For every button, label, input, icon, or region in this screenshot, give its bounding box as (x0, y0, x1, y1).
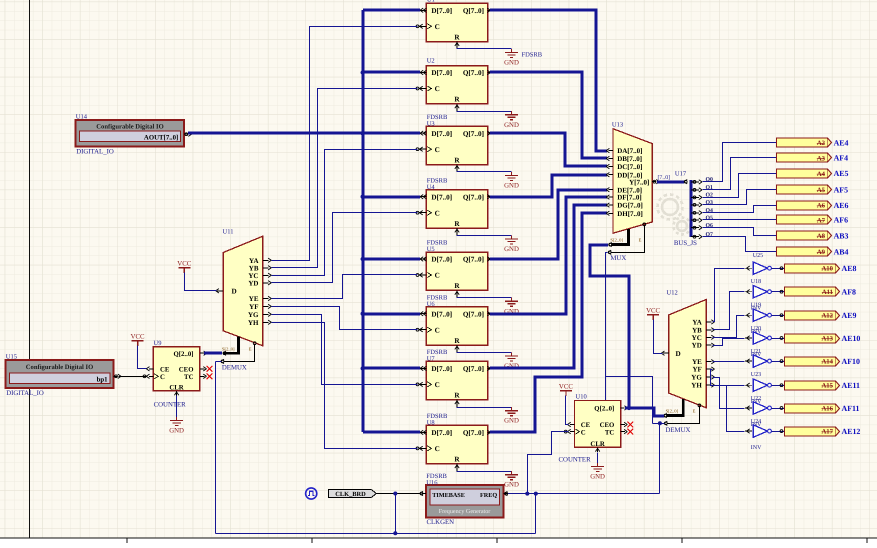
svg-text:S[2..0]: S[2..0] (222, 346, 235, 351)
U9 pin CLR stub (176, 391, 178, 396)
svg-text:CE: CE (581, 422, 591, 429)
U9 pin Q stub (200, 352, 204, 354)
junction D-bus U3 (361, 131, 365, 135)
svg-text:YA: YA (692, 318, 701, 326)
wire U1.R to GND (457, 48, 512, 50)
svg-text:YC: YC (692, 334, 702, 342)
wire rail to U11.E (215, 362, 217, 534)
U8 pin D stub (420, 431, 426, 433)
inverter gate U21 INV (745, 332, 771, 344)
flip-flop U8 (FDSRB) (426, 425, 487, 463)
svg-text:AE9: AE9 (842, 311, 857, 320)
junction D-bus U6 (361, 312, 365, 316)
svg-text:DEMUX: DEMUX (222, 364, 247, 371)
port A16 / AF11 (785, 404, 860, 413)
svg-text:C: C (435, 85, 440, 93)
svg-text:GND: GND (590, 474, 605, 481)
svg-text:GND: GND (169, 428, 184, 435)
svg-text:FREQ: FREQ (480, 492, 497, 499)
port A8 / AB3 (777, 231, 849, 240)
bus AOUT[7..0] vertical distribution (362, 10, 365, 432)
svg-text:U10: U10 (576, 393, 587, 400)
svg-text:DF[7..0]: DF[7..0] (617, 194, 642, 202)
wire O4 to port (703, 206, 777, 213)
bus segment to U7.D (363, 367, 420, 370)
U6 pin R stub (456, 345, 458, 352)
no-connect X on U10.TC (627, 429, 633, 435)
U5 pin C stub (419, 274, 427, 276)
junction CLK wire / rail riser (393, 492, 397, 496)
wire U3.R to GND (457, 171, 512, 173)
ground GND (U8 reset) (505, 471, 518, 480)
svg-text:CEO: CEO (600, 422, 615, 429)
component U9 COUNTER (153, 347, 200, 392)
U9 pin CE stub (149, 368, 154, 370)
svg-text:AF6: AF6 (834, 216, 849, 225)
wire O2 to port (703, 174, 777, 198)
svg-text:YD: YD (692, 342, 702, 350)
svg-text:YD: YD (248, 279, 258, 287)
svg-text:CLR: CLR (590, 441, 604, 448)
svg-text:A16: A16 (821, 405, 833, 412)
U7 pin Q stub (488, 367, 492, 369)
svg-text:YF: YF (692, 366, 701, 374)
wire VCC to U11.D (185, 273, 217, 291)
wire O3 to port (703, 190, 777, 205)
svg-text:U5: U5 (427, 246, 435, 253)
U15 pin bp1 stub (114, 375, 118, 377)
svg-text:YH: YH (691, 382, 702, 390)
svg-text:A15: A15 (821, 383, 833, 390)
U12 Y pin stubs (706, 320, 714, 388)
svg-text:Configurable Digital IO: Configurable Digital IO (96, 124, 163, 131)
flip-flop U5 (FDSRB) (426, 252, 487, 290)
svg-text:C: C (435, 326, 440, 334)
svg-text:C: C (435, 209, 440, 217)
junction U10.Q / U13.S riser (627, 406, 631, 410)
svg-text:Y[7..0]: Y[7..0] (629, 178, 649, 186)
svg-text:Q[7..0]: Q[7..0] (463, 310, 484, 318)
wire FREQ horizontal to riser (528, 493, 660, 495)
U13 pin Y stub (652, 181, 656, 183)
wire U11.YE to U5.C (272, 275, 418, 299)
component U17 BUS_JS bar (690, 180, 693, 237)
bus U7.Q to U13.DG (490, 205, 607, 368)
svg-text:A6: A6 (817, 203, 826, 210)
ground GND (U6 reset) (505, 352, 518, 361)
svg-text:YE: YE (249, 295, 259, 303)
U8 pin R stub (456, 464, 458, 471)
svg-text:E: E (639, 238, 642, 243)
svg-text:AF5: AF5 (834, 185, 849, 194)
bus segment to U1.D (363, 9, 420, 12)
wire U12.YG to inverter 7 (713, 378, 745, 409)
svg-text:A4: A4 (817, 171, 826, 178)
svg-text:AE4: AE4 (834, 138, 849, 147)
wire inverter 5 output to port (772, 361, 785, 363)
svg-text:U8: U8 (427, 420, 435, 427)
wire FREQ to U10.C (508, 432, 569, 494)
ground GND (U5 reset) (505, 298, 518, 307)
U9 pin C stub (149, 375, 154, 377)
wire U11.YG to U7.C (272, 315, 418, 385)
port A12 / AE9 (785, 311, 857, 320)
svg-text:O0: O0 (706, 177, 714, 183)
wire U6.R to GND (457, 352, 512, 354)
component U13 MUX trapezoid (613, 129, 652, 234)
wire inverter 1 output to port (772, 268, 785, 270)
U17 pin O5 (691, 219, 699, 221)
svg-text:U13: U13 (612, 121, 623, 128)
svg-text:U4: U4 (427, 184, 436, 191)
svg-text:AE8: AE8 (842, 264, 857, 273)
svg-text:DH[7..0]: DH[7..0] (617, 210, 643, 218)
U11 pin S[2..0] elbow (224, 337, 239, 354)
U10 pin Q stub (621, 407, 625, 409)
junction FREQ / C riser (525, 492, 529, 496)
svg-text:D[7..0]: D[7..0] (431, 130, 452, 138)
wire U4.R to GND (457, 235, 512, 237)
U3 pin R stub (456, 165, 458, 172)
wire U10.CLR to GND (597, 453, 599, 467)
wire U12.YF to inverter 6 (711, 370, 745, 386)
inverter gate U24 INV (745, 402, 771, 414)
svg-text:U15: U15 (6, 353, 17, 360)
svg-text:AE11: AE11 (842, 381, 860, 390)
svg-text:D[7..0]: D[7..0] (431, 256, 452, 264)
svg-text:Configurable Digital IO: Configurable Digital IO (26, 364, 93, 371)
U17 pin O4 (691, 212, 699, 214)
svg-text:D[7..0]: D[7..0] (431, 365, 452, 373)
bus segment to U2.D (363, 71, 420, 74)
flip-flop U4 (FDSRB) (426, 190, 487, 228)
svg-text:U18: U18 (751, 279, 761, 285)
wire VCC to U10.CE (566, 396, 569, 425)
svg-text:D[7..0]: D[7..0] (431, 193, 452, 201)
svg-text:U17: U17 (675, 171, 687, 178)
junction bottom rail / CLK riser (393, 531, 397, 535)
U13 pin E elbow (611, 225, 645, 252)
U17 pin O2 (691, 196, 699, 198)
U6 pin C stub (419, 329, 427, 331)
bus segment to U8.D (363, 431, 420, 434)
wire U11.YH to U8.C (272, 323, 418, 449)
port A10 / AE8 (785, 264, 857, 273)
svg-text:R: R (454, 96, 460, 104)
U12 pin S[2..0] elbow (666, 399, 683, 416)
svg-text:U14: U14 (76, 114, 88, 121)
junction D-bus U5 (361, 257, 365, 261)
svg-text:Q[7..0]: Q[7..0] (463, 365, 484, 373)
svg-text:O4: O4 (706, 208, 714, 214)
svg-text:AF10: AF10 (842, 357, 860, 366)
component U15 Configurable Digital IO (6, 360, 114, 388)
svg-text:MUX: MUX (610, 255, 626, 262)
svg-text:COUNTER: COUNTER (559, 457, 592, 464)
svg-text:DG[7..0]: DG[7..0] (617, 202, 643, 210)
port A2 / AE4 (777, 138, 849, 147)
svg-text:A5: A5 (817, 187, 826, 194)
U10 pin CLR stub (597, 447, 599, 452)
U17 pin O3 (691, 204, 699, 206)
wire O6 to port (703, 228, 777, 236)
bus U9.Q to U11.S (204, 352, 222, 355)
svg-text:DIGITAL_IO: DIGITAL_IO (6, 390, 44, 397)
no-connect X on U9.CEO (207, 366, 213, 372)
U12 pin E elbow (667, 406, 700, 423)
svg-text:GND: GND (504, 183, 519, 190)
U9 pin CEO stub (200, 368, 205, 370)
svg-text:bp1: bp1 (97, 376, 109, 383)
port A11 / AF8 (785, 287, 857, 297)
svg-text:AB4: AB4 (834, 248, 849, 257)
svg-text:VCC: VCC (177, 260, 191, 267)
inverter gate U23 INV (745, 355, 771, 367)
svg-text:YG: YG (248, 311, 259, 319)
U10 pin CE stub (570, 424, 575, 426)
port A17 / AE12 (785, 427, 861, 436)
junction FREQ / rail riser (534, 492, 538, 496)
watermark gear (658, 195, 691, 235)
svg-text:TC: TC (184, 374, 194, 381)
ground GND (U4 reset) (505, 235, 518, 244)
U1 pin D stub (420, 9, 426, 11)
component U16 CLKGEN Frequency Generator (426, 485, 503, 518)
U4 pin R stub (456, 228, 458, 235)
wire U11.YC to U3.C (272, 150, 418, 276)
svg-text:D[7..0]: D[7..0] (431, 69, 452, 77)
svg-text:R: R (454, 282, 460, 290)
wire U8.R to GND (457, 471, 512, 473)
clock source icon (306, 488, 317, 499)
U2 pin Q stub (488, 72, 492, 74)
U17 pin O6 (691, 227, 699, 229)
svg-text:U23: U23 (751, 372, 761, 378)
U7 pin C stub (419, 383, 427, 385)
svg-text:VCC: VCC (559, 383, 573, 390)
svg-text:C: C (435, 445, 440, 453)
port A15 / AE11 (785, 381, 860, 390)
wire U11.YD to U4.C (272, 213, 418, 283)
svg-text:AF11: AF11 (842, 404, 860, 413)
svg-text:VCC: VCC (131, 333, 145, 340)
port CLK_BRD (328, 489, 376, 497)
svg-text:CLR: CLR (169, 385, 183, 392)
svg-text:AE12: AE12 (842, 427, 861, 436)
U2 pin C stub (419, 88, 427, 90)
svg-text:Q[2..0]: Q[2..0] (173, 351, 193, 358)
svg-text:DB[7..0]: DB[7..0] (617, 155, 642, 163)
svg-text:R: R (454, 392, 460, 400)
wire U5.R to GND (457, 297, 512, 299)
bus segment to U4.D (363, 196, 420, 199)
wire O5 to port (703, 219, 777, 221)
port A6 / AE6 (777, 201, 849, 210)
U11 pin D stub (217, 290, 223, 292)
svg-text:C: C (435, 23, 440, 31)
port A9 / AB4 (777, 247, 849, 257)
wire U13.E down-right to E net (606, 253, 653, 424)
ground GND (U3 reset) (505, 172, 518, 181)
U8 pin C stub (419, 447, 427, 449)
svg-text:AE6: AE6 (834, 201, 849, 210)
svg-text:INV: INV (751, 445, 762, 451)
component U14 Configurable Digital IO (76, 120, 184, 146)
junction D-bus U3/U14 (361, 131, 365, 135)
bus U13.S select from U10.Q (590, 245, 629, 408)
wire O1 to port (703, 158, 777, 190)
svg-text:D: D (676, 350, 681, 358)
svg-text:U12: U12 (667, 289, 678, 296)
ground GND (U7 reset) (505, 407, 518, 416)
wire VCC to U12.D (654, 320, 663, 354)
U17 pin O0 (691, 181, 699, 183)
bus U8.Q to U13.DH (490, 213, 607, 432)
svg-text:Q[7..0]: Q[7..0] (463, 429, 484, 437)
U5 pin D stub (420, 258, 426, 260)
U11 Y pin stubs (263, 258, 272, 324)
svg-text:AF8: AF8 (842, 288, 857, 297)
svg-text:TIMEBASE: TIMEBASE (432, 492, 465, 499)
svg-text:GND: GND (504, 60, 519, 67)
svg-text:A3: A3 (817, 155, 826, 162)
inverter gate U25 INV (745, 425, 771, 437)
svg-text:Frequency Generator: Frequency Generator (439, 508, 491, 515)
svg-text:U9: U9 (154, 340, 162, 347)
svg-text:DEMUX: DEMUX (666, 427, 691, 434)
svg-text:GND: GND (504, 418, 519, 425)
svg-text:AB3: AB3 (834, 231, 849, 240)
U7 pin R stub (456, 400, 458, 407)
port A4 / AE5 (777, 169, 849, 178)
junction D-bus U4 (361, 195, 365, 199)
svg-text:C: C (435, 146, 440, 154)
svg-text:A12: A12 (821, 313, 833, 320)
wire inverter 8 output to port (772, 431, 785, 433)
svg-text:A17: A17 (821, 429, 833, 436)
wire U11.YA to U1.C (272, 27, 418, 261)
wire U2.R to GND (457, 111, 512, 113)
svg-text:YG: YG (691, 374, 702, 382)
component U10 COUNTER (575, 401, 621, 448)
bus U6.Q to U13.DF (490, 197, 607, 314)
inverter gate U19 INV (745, 286, 771, 298)
bus U3.Q to U13.DC (490, 133, 607, 166)
svg-text:D[7..0]: D[7..0] (431, 429, 452, 437)
wire CLK_BRD to U16.TIMEBASE (377, 493, 421, 495)
U16 pin TIMEBASE stub (422, 493, 427, 495)
port A14 / AF10 (785, 357, 860, 366)
svg-text:C: C (435, 272, 440, 280)
svg-text:COUNTER: COUNTER (154, 401, 187, 408)
U10 pin TC stub (621, 431, 626, 433)
U2 pin D stub (420, 72, 426, 74)
wire U12.YH to inverter 8 (713, 386, 745, 432)
U12 pin names Y (676, 318, 703, 389)
svg-text:YH: YH (248, 319, 259, 327)
wire U11.YB to U2.C (272, 89, 418, 268)
bus U4.Q to U13.DD (490, 175, 607, 197)
svg-text:E: E (693, 409, 696, 414)
wire rail riser (FREQ to bottom rail) (535, 494, 537, 534)
svg-text:DIGITAL_IO: DIGITAL_IO (76, 148, 114, 155)
wire FREQ to U12.E riser (653, 423, 665, 425)
svg-text:CE: CE (160, 366, 170, 373)
U12 pin D stub (663, 352, 669, 354)
U13 D pin stubs (606, 148, 613, 215)
svg-text:YF: YF (249, 303, 258, 311)
wire U12.YC to inverter 3 (713, 316, 745, 338)
svg-text:R: R (454, 33, 460, 41)
wire stub below U13.E path (605, 377, 607, 401)
bus segment to U3.D (363, 132, 420, 135)
wire U12.YA to inverter 1 (713, 269, 745, 322)
svg-text:O1: O1 (706, 185, 714, 191)
U5 pin Q stub (488, 258, 492, 260)
svg-text:Q[7..0]: Q[7..0] (463, 193, 484, 201)
bus U10.Q to U12.S (625, 408, 664, 416)
U3 pin D stub (420, 132, 426, 134)
wire bottom rail (216, 533, 536, 535)
U11 pin names Y (232, 257, 260, 327)
inverter gate U22 INV (745, 379, 771, 391)
ground GND (U1 reset) (505, 49, 518, 58)
inverter gate U18 INV (745, 262, 771, 274)
U4 pin C stub (419, 212, 427, 214)
svg-text:A2: A2 (817, 140, 826, 147)
U7 pin D stub (420, 367, 426, 369)
wire O0 to port (703, 143, 777, 182)
svg-text:A13: A13 (821, 335, 833, 342)
svg-text:TC: TC (605, 429, 615, 436)
wire U12.YD to inverter 4 (713, 339, 745, 346)
svg-text:C: C (435, 381, 440, 389)
bus U2.Q to U13.DB (490, 72, 607, 158)
flip-flop U6 (FDSRB) (426, 307, 487, 345)
wire U15.bp1 to U9.C (119, 376, 147, 378)
port A7 / AF6 (777, 215, 849, 225)
svg-text:U3: U3 (427, 120, 435, 127)
U9 pin TC stub (200, 375, 205, 377)
svg-text:Q[7..0]: Q[7..0] (463, 69, 484, 77)
U14 pin AOUT stub (184, 133, 188, 135)
junction D-bus U2 (361, 70, 365, 74)
svg-text:U1: U1 (427, 0, 435, 4)
wire inverter 2 output to port (772, 291, 785, 293)
svg-text:D: D (232, 287, 237, 295)
U10 pin CEO stub (621, 424, 626, 426)
bus U5.Q to U13.DE (490, 190, 607, 259)
U5 pin R stub (456, 290, 458, 297)
svg-text:R: R (454, 337, 460, 345)
U10 pin C stub (570, 431, 575, 433)
svg-text:U7: U7 (427, 356, 436, 363)
svg-text:U11: U11 (223, 229, 234, 236)
svg-text:VCC: VCC (646, 307, 660, 314)
wire O7 to port (703, 237, 777, 252)
U16 pin FREQ stub (503, 493, 508, 495)
U1 pin R stub (456, 42, 458, 49)
U17 pin O7 (691, 236, 699, 238)
ground GND (U9.CLR) (170, 417, 183, 426)
component U11 DEMUX trapezoid (223, 236, 263, 346)
bus U1.Q to U13.DA (490, 10, 607, 151)
no-connect X on U10.CEO (627, 422, 633, 428)
svg-text:R: R (454, 220, 460, 228)
wire inverter 4 output to port (772, 338, 785, 340)
U1 pin Q stub (488, 9, 492, 11)
svg-text:D[7..0]: D[7..0] (431, 7, 452, 15)
